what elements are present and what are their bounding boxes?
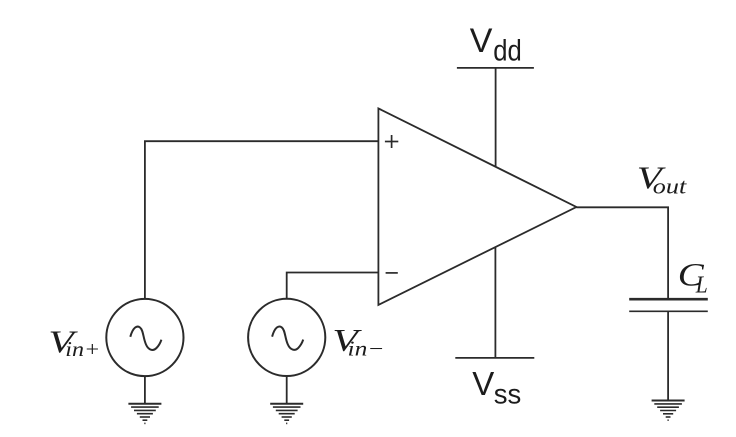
wire output: op-amp to node Vout and down to CL: [576, 207, 668, 298]
op-amp U1 minus input marker: [386, 272, 398, 274]
op-amp U1 plus input marker: [385, 135, 398, 148]
source Vin- sine symbol: [272, 327, 303, 350]
svg-text:V: V: [472, 365, 494, 402]
source Vin+ circle: [106, 299, 183, 376]
capacitor CL bottom plate: [629, 310, 708, 312]
wire Vdd stem to op-amp top edge: [495, 68, 497, 167]
ground symbol under Vin+ source: [128, 404, 161, 424]
svg-text:ss: ss: [494, 378, 522, 409]
ground symbol under capacitor CL: [652, 401, 685, 421]
wire Vin+ source to ground: [144, 376, 146, 404]
wire CL bottom plate to ground: [667, 311, 669, 400]
label Vss: [472, 365, 521, 409]
capacitor CL top plate: [629, 298, 708, 301]
svg-text:in−: in−: [348, 336, 385, 360]
Vss supply rail: [455, 357, 534, 359]
label Vout at node Vout: [637, 160, 688, 199]
Vdd supply rail: [457, 67, 534, 69]
svg-text:in+: in+: [65, 337, 100, 361]
label Vdd: [470, 22, 522, 67]
source Vin- circle: [248, 299, 325, 376]
wire inverting input: Vin- source to op-amp: [287, 273, 379, 299]
source Vin+ sine symbol: [130, 327, 161, 350]
wire Vss stem from op-amp bottom edge: [494, 247, 496, 358]
label Vin-: [332, 324, 384, 361]
wire Vin- source to ground: [286, 376, 288, 404]
wire noninverting input: Vin+ source to op-amp: [145, 141, 379, 299]
svg-text:out: out: [653, 174, 688, 199]
svg-text:L: L: [695, 272, 708, 298]
svg-text:V: V: [470, 22, 493, 60]
ground symbol under Vin- source: [270, 404, 303, 424]
label CL value of capacitor: [678, 256, 708, 298]
svg-text:dd: dd: [493, 34, 522, 67]
label Vin+: [48, 325, 100, 361]
op-amp U1 triangle: [378, 108, 576, 305]
